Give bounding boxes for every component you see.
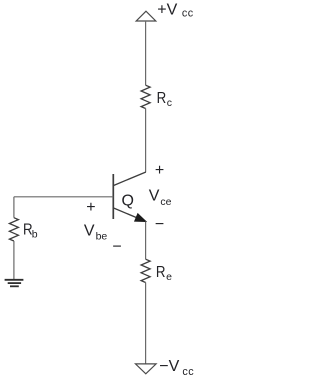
emitter arrowhead	[135, 214, 146, 222]
resistor R3 (Re)	[141, 259, 150, 282]
wire left vertical	[13, 197, 15, 218]
wire to ground	[13, 241, 15, 279]
resistor R1 (Rc)	[141, 85, 150, 108]
base bar	[112, 174, 114, 219]
emitter wire	[145, 222, 147, 260]
wire collector top	[145, 21, 147, 85]
wire collector	[145, 109, 147, 173]
emitter diagonal	[113, 208, 146, 222]
power +Vcc symbol	[136, 11, 156, 21]
svg-text:−: −	[155, 216, 164, 233]
ground	[5, 280, 24, 287]
transistor Q1	[113, 172, 146, 222]
collector diagonal	[113, 172, 146, 186]
svg-text:Q: Q	[122, 193, 134, 210]
resistor R2 (Rb)	[9, 218, 18, 241]
wire emitter bottom	[145, 283, 147, 364]
svg-text:+: +	[86, 199, 95, 216]
svg-text:−: −	[112, 239, 121, 256]
base wire	[14, 196, 113, 198]
svg-text:+: +	[155, 162, 164, 179]
power -Vcc symbol	[136, 364, 157, 374]
